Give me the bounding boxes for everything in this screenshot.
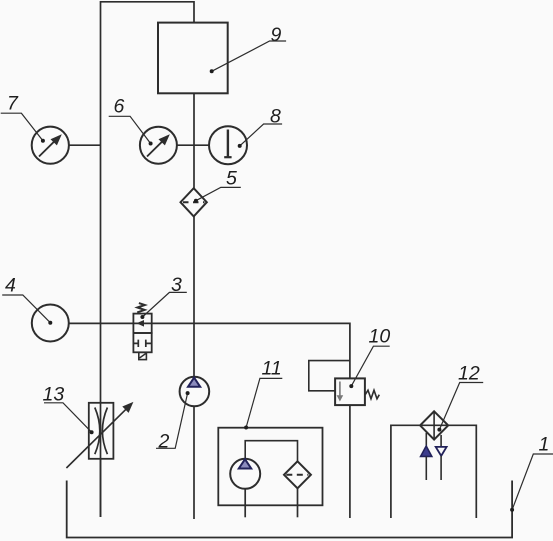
wire main horizontal H3 and down to valve 10 — [69, 323, 350, 378]
relief valve 10 — [309, 361, 380, 406]
label 8 — [238, 105, 282, 148]
label 4 — [2, 274, 52, 324]
svg-text:4: 4 — [5, 274, 16, 296]
svg-text:11: 11 — [262, 358, 282, 380]
breather 12 box walls — [391, 425, 476, 518]
pump unit 11 box — [218, 428, 322, 506]
svg-text:12: 12 — [458, 363, 480, 385]
label 6 — [109, 96, 153, 146]
valve 3 (two-position valve with spring) — [133, 303, 151, 359]
wire gauge6 to gauge8 — [177, 144, 209, 146]
wire diamond5 down to pump 2 — [193, 216, 195, 376]
pump inside 11 — [230, 459, 260, 489]
breather 12 (diamond with check valves) — [420, 411, 448, 480]
gauge 7 (pressure gauge) — [32, 127, 69, 164]
gauge 8 (thermometer) — [209, 126, 247, 164]
wire gauge7 to V1 — [69, 144, 101, 146]
svg-text:6: 6 — [114, 96, 125, 118]
wire V1 bottom stub into tank — [100, 459, 102, 517]
gauge 6 (pressure gauge) — [140, 127, 177, 164]
label 12 — [437, 363, 483, 432]
label 5 — [194, 167, 241, 202]
svg-text:5: 5 — [226, 167, 237, 189]
wire pump11 to tank — [244, 489, 246, 518]
svg-text:9: 9 — [271, 24, 282, 46]
label 11 — [244, 358, 282, 430]
wire top-left vertical V1 — [101, 2, 195, 517]
label 10 — [349, 326, 390, 389]
component 9 box — [158, 23, 228, 94]
filter inside 11 — [284, 461, 311, 488]
label 9 — [210, 24, 286, 74]
tank 1 — [67, 481, 512, 538]
throttle valve 13 (adjustable) — [66, 402, 133, 468]
label 13 — [43, 384, 94, 435]
wire filter11 to tank — [297, 488, 299, 517]
label 1 — [510, 433, 553, 512]
svg-text:1: 1 — [539, 433, 550, 455]
wire pump2 down to tank — [193, 406, 195, 519]
label 2 — [156, 391, 190, 452]
filter 5 (diamond with dashed line) — [181, 188, 207, 216]
label 7 — [1, 93, 45, 143]
wire valve10 down to tank — [349, 405, 351, 518]
svg-text:7: 7 — [7, 93, 19, 115]
label 3 — [140, 274, 186, 319]
gauge 4 (plain circle) — [32, 305, 69, 342]
svg-text:2: 2 — [158, 430, 170, 452]
pump 2 (circle with filled triangle) — [180, 377, 210, 407]
svg-text:10: 10 — [369, 326, 391, 348]
wire from box 9 down to diamond 5 — [193, 93, 195, 188]
